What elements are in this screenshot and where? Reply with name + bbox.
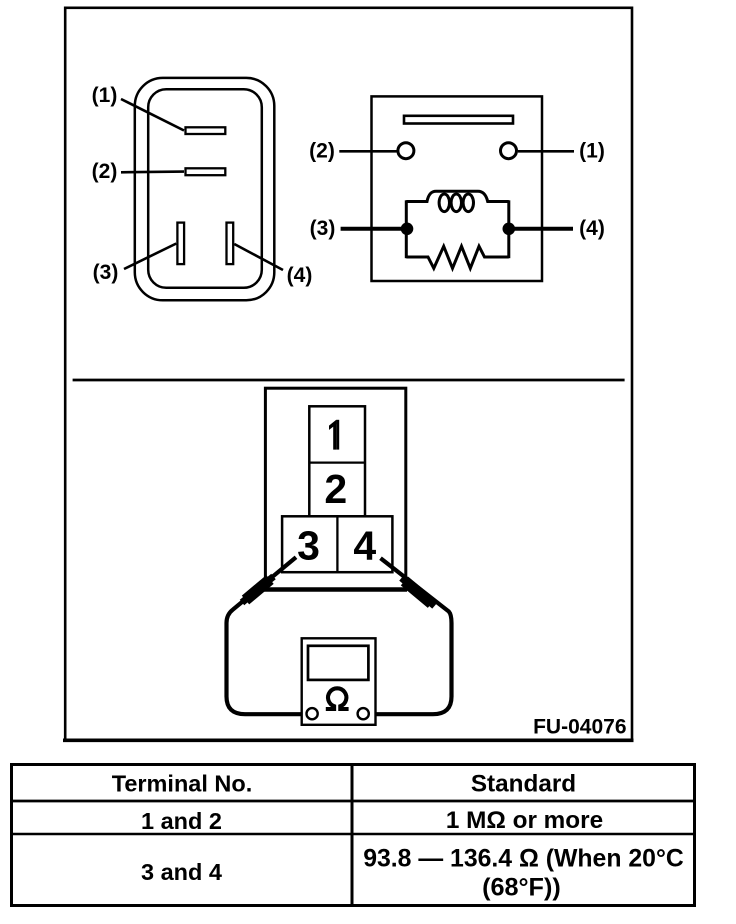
svg-text:2: 2 bbox=[324, 466, 347, 512]
svg-text:3 and 4: 3 and 4 bbox=[141, 859, 222, 885]
svg-text:(4): (4) bbox=[287, 264, 313, 287]
svg-text:1 and 2: 1 and 2 bbox=[141, 808, 222, 834]
svg-text:Standard: Standard bbox=[471, 771, 576, 798]
svg-text:(3): (3) bbox=[93, 261, 119, 284]
svg-text:(1): (1) bbox=[579, 139, 605, 162]
svg-text:(2): (2) bbox=[92, 160, 118, 183]
svg-text:93.8 — 136.4 Ω (When 20°C: 93.8 — 136.4 Ω (When 20°C bbox=[363, 846, 684, 873]
svg-text:(68°F)): (68°F)) bbox=[482, 874, 561, 902]
svg-text:(4): (4) bbox=[579, 217, 605, 240]
svg-text:(1): (1) bbox=[92, 84, 118, 107]
svg-text:1 MΩ or more: 1 MΩ or more bbox=[446, 807, 603, 834]
svg-text:FU-04076: FU-04076 bbox=[533, 716, 626, 739]
svg-text:4: 4 bbox=[353, 523, 376, 569]
svg-text:3: 3 bbox=[297, 523, 320, 569]
svg-text:(2): (2) bbox=[309, 139, 335, 162]
svg-text:(3): (3) bbox=[310, 217, 336, 240]
svg-text:Terminal No.: Terminal No. bbox=[112, 771, 253, 797]
